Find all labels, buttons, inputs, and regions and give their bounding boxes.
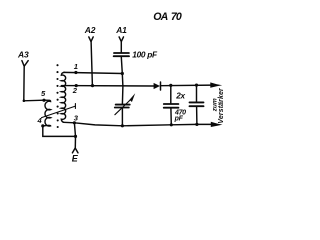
variable capacitor (tuning) stem upper	[121, 74, 124, 105]
junction rail2 / C2	[169, 84, 172, 87]
svg-text:100 pF: 100 pF	[132, 49, 158, 59]
svg-text:2x: 2x	[175, 91, 185, 100]
junction rail1 / tuning branch	[121, 72, 124, 75]
label zum Verstärker	[211, 87, 225, 124]
capacitor C2 plates	[164, 104, 179, 108]
junction A3 corner	[23, 99, 26, 102]
label 1	[74, 62, 78, 71]
label 100pF	[132, 49, 158, 59]
coil secondary L1b (taps 1,2,3)	[61, 72, 65, 122]
label 2	[72, 86, 78, 95]
capacitor C2 470pF stem	[170, 85, 173, 124]
adjustable core arrow	[42, 104, 76, 118]
wire A2 stem	[91, 42, 92, 86]
output arrow bottom	[211, 122, 223, 127]
wire bottom rail (tap3 to output)	[64, 122, 215, 126]
capacitor C3 470pF stem	[196, 85, 198, 124]
svg-text:A2: A2	[84, 25, 96, 35]
variable capacitor plates	[115, 105, 130, 108]
label 470 pF	[174, 109, 187, 122]
wire tap3 down to ground rail	[74, 123, 75, 137]
terminal dot 3	[73, 121, 76, 124]
label 2x	[175, 91, 185, 100]
junction rail2 / C3	[195, 84, 198, 87]
wire rail2 tap2 to diode	[62, 85, 154, 87]
terminal dot 2	[75, 84, 78, 87]
variable capacitor arrow	[115, 99, 131, 115]
svg-text:Verstärker: Verstärker	[218, 87, 225, 124]
wire A1 stem	[120, 42, 122, 53]
label 5	[41, 89, 46, 98]
terminal E	[72, 136, 79, 163]
svg-text:5: 5	[41, 89, 46, 98]
svg-text:pF: pF	[174, 116, 184, 123]
terminal dot 5	[42, 99, 45, 102]
label 3	[74, 114, 79, 123]
terminal A1	[115, 25, 127, 41]
wire rail1 tap1	[64, 72, 123, 73]
terminal A3	[17, 49, 29, 66]
wire A3 to tap5	[24, 66, 44, 101]
diode OA70	[154, 82, 161, 90]
wire diode to output	[161, 84, 213, 87]
label 4	[37, 116, 43, 125]
title OA 70	[153, 11, 182, 23]
transformer core (dotted)	[56, 64, 58, 128]
svg-text:E: E	[72, 154, 79, 164]
wire tap4 to ground rail	[43, 126, 76, 136]
junction bottom / tuning cap	[121, 124, 124, 127]
svg-text:1: 1	[74, 62, 78, 71]
svg-text:A3: A3	[17, 49, 29, 59]
junction ground rail / E	[74, 135, 77, 138]
svg-text:OA 70: OA 70	[153, 11, 182, 23]
variable capacitor stem lower	[121, 108, 123, 126]
junction bottom / C2	[170, 123, 173, 126]
output arrow top	[210, 82, 222, 87]
capacitor 100pF	[114, 53, 129, 56]
svg-text:2: 2	[72, 86, 78, 95]
junction rail2 / A2	[91, 84, 94, 87]
terminal dot 4	[41, 124, 44, 127]
svg-text:A1: A1	[115, 25, 127, 35]
wire cap bottom to rail1	[121, 57, 122, 74]
capacitor C3 plates	[190, 102, 204, 106]
terminal dot 1	[74, 71, 77, 74]
coil primary L1a (taps 5,4)	[44, 100, 51, 126]
terminal A2	[84, 25, 96, 41]
junction bottom / C3	[195, 123, 198, 126]
svg-text:3: 3	[74, 114, 79, 123]
